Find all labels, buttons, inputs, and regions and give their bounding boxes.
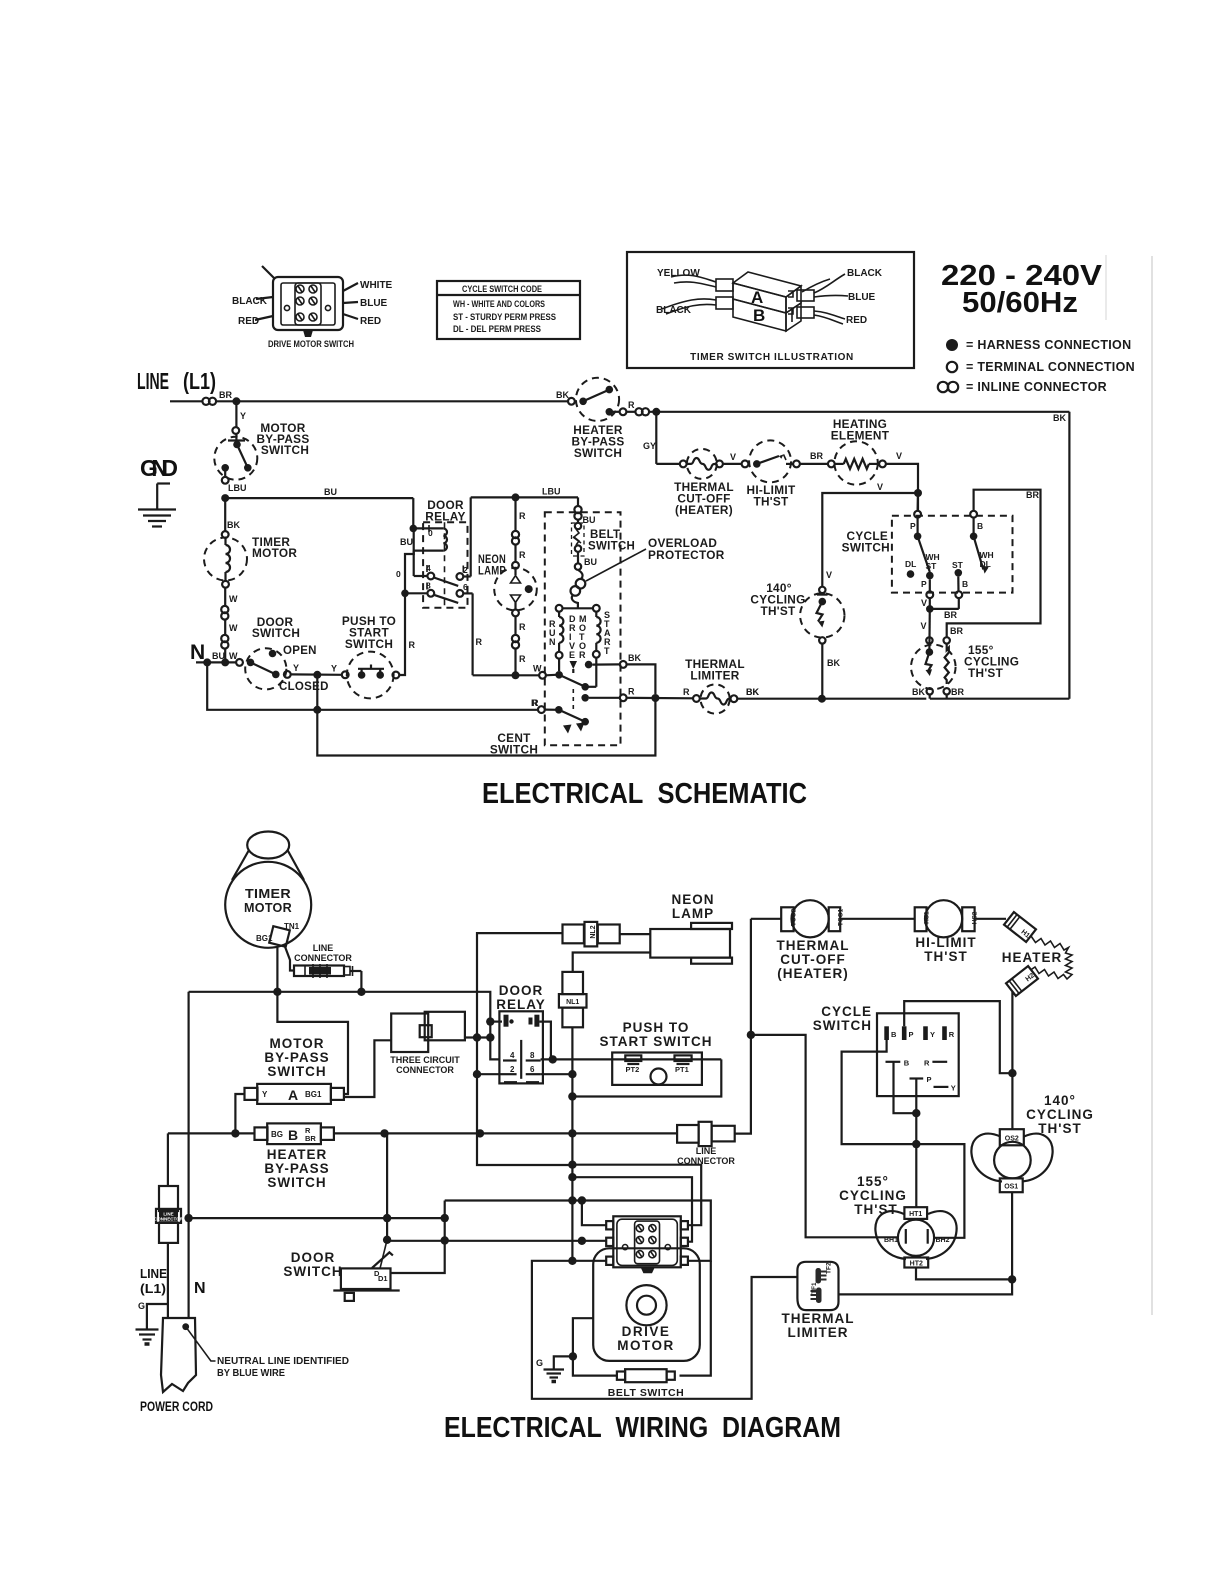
- svg-text:N: N: [190, 641, 205, 664]
- cycle switch box: [892, 516, 1013, 593]
- start winding: [593, 612, 601, 658]
- door relay (wiring): [499, 1011, 543, 1083]
- svg-text:BR: BR: [950, 626, 963, 636]
- wire NL1 trunk down: [571, 1027, 573, 1261]
- node B right 2: [476, 1129, 484, 1137]
- svg-text:BLACK: BLACK: [656, 305, 692, 316]
- svg-text:DRIVE: DRIVE: [622, 1324, 671, 1339]
- svg-text:BK: BK: [227, 520, 240, 530]
- ground symbol motor: [544, 1370, 565, 1382]
- svg-text:B: B: [962, 579, 968, 589]
- heating element: [828, 441, 886, 484]
- svg-text:SWITCH: SWITCH: [267, 1064, 326, 1079]
- node timer/N junction: [221, 658, 229, 666]
- node bus/3cc: [486, 1033, 494, 1041]
- svg-text:N: N: [549, 637, 556, 647]
- svg-text:R: R: [579, 650, 586, 660]
- svg-text:TN1: TN1: [284, 922, 300, 931]
- thermal cut-off (wiring): [751, 900, 915, 937]
- svg-text:BG1: BG1: [256, 934, 273, 943]
- heater by-pass switch: [568, 378, 626, 421]
- svg-text:Y: Y: [240, 411, 246, 421]
- wire GY down: [655, 412, 657, 464]
- overload protector: [571, 570, 586, 609]
- wire left top terminal: [582, 1201, 606, 1226]
- node: [578, 1237, 586, 1245]
- svg-text:LINE: LINE: [696, 1146, 717, 1156]
- wire timer drop: [224, 498, 226, 531]
- wire 140 branch: [822, 493, 918, 587]
- wire pin0 stub: [490, 1020, 502, 1022]
- svg-text:MOTOR: MOTOR: [270, 1036, 325, 1051]
- wire relay pin1: [539, 1022, 551, 1060]
- svg-text:THREE CIRCUIT: THREE CIRCUIT: [390, 1055, 460, 1065]
- node BU/coil junction: [410, 525, 418, 533]
- timer motor (wiring): [225, 832, 311, 948]
- svg-text:LAMP: LAMP: [672, 906, 714, 921]
- thermal cut-off (heater): [680, 449, 723, 479]
- terminal W motor: [539, 672, 546, 679]
- svg-text:V: V: [896, 451, 902, 461]
- wire LBU line: [471, 496, 578, 498]
- node trunk bottom: [568, 1257, 576, 1265]
- node trunk/y1200: [568, 1196, 576, 1204]
- svg-text:R: R: [532, 698, 539, 708]
- svg-text:BK: BK: [912, 687, 925, 697]
- svg-text:CLOSED: CLOSED: [279, 681, 329, 693]
- node: [912, 1109, 920, 1117]
- svg-text:P: P: [921, 579, 927, 589]
- svg-text:BU: BU: [584, 557, 597, 567]
- svg-text:TCO1: TCO1: [837, 908, 844, 926]
- svg-text:B: B: [891, 1030, 897, 1039]
- svg-text:D1: D1: [378, 1274, 388, 1283]
- svg-text:MOTOR: MOTOR: [244, 900, 292, 915]
- svg-text:LIMITER: LIMITER: [788, 1325, 849, 1340]
- svg-text:R: R: [519, 622, 526, 632]
- wire y1177: [572, 1177, 692, 1242]
- svg-text:WHITE: WHITE: [360, 280, 393, 291]
- wire cycle V down: [928, 609, 931, 649]
- node loop: [313, 706, 321, 714]
- svg-text:4: 4: [510, 1051, 515, 1060]
- heater by-pass switch B (wiring): [255, 1123, 334, 1144]
- terminal R: [620, 694, 627, 701]
- wire L1 to heater bypass: [216, 400, 569, 402]
- heater element (wiring): [1004, 912, 1072, 996]
- door relay contact 4-2: [414, 551, 471, 586]
- svg-text:155°: 155°: [857, 1174, 889, 1189]
- svg-text:6: 6: [530, 1065, 535, 1074]
- svg-text:LINE: LINE: [313, 943, 334, 953]
- wire down to motor by-pass: [235, 401, 237, 427]
- wire door switch line: [189, 1217, 445, 1219]
- 140 cycling th'st: [800, 587, 844, 699]
- svg-text:CONNECTOR: CONNECTOR: [294, 953, 352, 963]
- node junction x655: [651, 694, 659, 702]
- svg-text:CONNECTOR: CONNECTOR: [154, 1217, 184, 1222]
- wire g branch: [554, 1356, 573, 1369]
- svg-text:A: A: [751, 288, 763, 307]
- inline connector: [574, 506, 581, 513]
- wire door drop: [386, 1133, 388, 1239]
- svg-text:NL1: NL1: [566, 999, 579, 1006]
- drive motor switch connector: [606, 1216, 688, 1273]
- timer motor: [204, 531, 247, 588]
- svg-text:Y: Y: [293, 663, 299, 673]
- wire top bus: [189, 992, 500, 1060]
- svg-text:BH2: BH2: [936, 1237, 950, 1244]
- svg-text:HEATER: HEATER: [1002, 950, 1063, 965]
- svg-text:BK: BK: [628, 653, 641, 663]
- cycle switch (wiring): [877, 1013, 959, 1096]
- svg-text:BLACK: BLACK: [232, 296, 268, 307]
- wire connector down to bus: [360, 971, 362, 992]
- svg-text:PROTECTOR: PROTECTOR: [648, 548, 725, 562]
- svg-text:50/60Hz: 50/60Hz: [962, 287, 1078, 319]
- svg-text:BG1: BG1: [305, 1090, 322, 1099]
- svg-text:TH'ST: TH'ST: [760, 604, 796, 618]
- svg-text:N: N: [194, 1280, 206, 1297]
- node: [912, 1140, 920, 1148]
- svg-text:B: B: [753, 306, 765, 325]
- run winding: [556, 612, 564, 671]
- wire left edge down: [188, 992, 190, 1318]
- svg-text:R: R: [519, 550, 526, 560]
- door relay contact 8-6: [405, 581, 473, 603]
- svg-text:NL2: NL2: [590, 925, 597, 938]
- svg-text:LINE: LINE: [137, 368, 169, 394]
- svg-text:T: T: [604, 646, 610, 656]
- wire heater row: [656, 463, 680, 465]
- svg-text:BK: BK: [746, 687, 759, 697]
- wires: [671, 275, 716, 282]
- neon lamp branch: [494, 497, 537, 675]
- svg-text:Y: Y: [331, 664, 337, 674]
- wire BU corner down: [412, 498, 414, 528]
- svg-text:BR: BR: [951, 687, 964, 697]
- svg-text:WH - WHITE AND COLORS: WH - WHITE AND COLORS: [453, 299, 545, 310]
- svg-text:BK: BK: [827, 658, 840, 668]
- node: [549, 1055, 557, 1063]
- wire N line: [196, 661, 236, 663]
- wire branch to 140: [751, 1035, 898, 1237]
- svg-text:A: A: [288, 1087, 298, 1103]
- wire A right to 3cc: [344, 1040, 391, 1097]
- svg-text:= TERMINAL CONNECTION: = TERMINAL CONNECTION: [966, 360, 1135, 374]
- svg-text:R: R: [924, 1059, 930, 1068]
- wire left mid terminal from door: [387, 1240, 606, 1241]
- svg-text:SWITCH: SWITCH: [283, 1264, 342, 1279]
- svg-text:OS2: OS2: [1005, 1136, 1019, 1143]
- svg-text:YELLOW: YELLOW: [657, 268, 700, 279]
- svg-text:CONNECTOR: CONNECTOR: [396, 1065, 454, 1075]
- node motor R dot: [581, 694, 589, 702]
- wire timer to line connector: [284, 944, 294, 971]
- wire cycle P top: [904, 1001, 1012, 1073]
- node: [357, 988, 365, 996]
- svg-text:RELAY: RELAY: [425, 510, 465, 524]
- svg-text:140°: 140°: [1044, 1093, 1076, 1108]
- wire pts loop: [572, 1059, 721, 1096]
- wire heat to cycle P: [916, 493, 919, 511]
- wire right bottom to belt: [680, 1261, 711, 1376]
- svg-text:(HEATER): (HEATER): [777, 966, 849, 981]
- svg-text:6: 6: [463, 582, 468, 592]
- three circuit connector: [391, 1012, 465, 1052]
- svg-text:RELAY: RELAY: [496, 997, 546, 1012]
- svg-text:B: B: [977, 521, 983, 531]
- door switch (wiring): [333, 1240, 399, 1301]
- wire to corner: [886, 464, 918, 511]
- svg-text:RED: RED: [846, 315, 867, 326]
- leader overload: [586, 549, 646, 581]
- wire bottom main BK: [737, 698, 926, 700]
- thermal limiter schematic: [693, 684, 737, 713]
- svg-text:SWITCH: SWITCH: [252, 626, 300, 640]
- svg-text:TIMER: TIMER: [245, 886, 291, 901]
- wire B line: [168, 1132, 255, 1134]
- wire right edge down: [1068, 412, 1070, 699]
- wire lc2 right up: [735, 919, 751, 1134]
- svg-text:ST: ST: [952, 560, 964, 570]
- svg-text:BLUE: BLUE: [848, 292, 876, 303]
- node: [473, 1070, 481, 1078]
- wire bar2 left to trunk: [477, 933, 563, 1074]
- node os1/ht2: [1008, 1275, 1016, 1283]
- svg-text:NEON: NEON: [671, 892, 714, 907]
- node door line junction: [184, 1214, 192, 1222]
- wire H2 down: [1011, 992, 1013, 1073]
- 155 cycling th'st: [911, 637, 956, 699]
- svg-text:TH'ST: TH'ST: [968, 666, 1004, 680]
- wire trunk nodes: [568, 1161, 576, 1169]
- wire LBU corner into motor: [577, 497, 579, 506]
- cent switch lower: [531, 689, 589, 734]
- wire PTS up to relay: [399, 528, 413, 675]
- wire: [800, 463, 828, 465]
- svg-text:R: R: [949, 1030, 955, 1039]
- svg-text:8: 8: [530, 1051, 535, 1060]
- ground symbol power: [136, 1330, 159, 1345]
- door relay coil: [413, 525, 447, 551]
- N bottom loop: [207, 662, 538, 709]
- svg-text:ST - STURDY PERM PRESS: ST - STURDY PERM PRESS: [453, 312, 556, 323]
- wire y1200 run: [445, 1201, 711, 1261]
- door relay mid dashed line: [444, 522, 446, 608]
- svg-text:Y: Y: [930, 1030, 935, 1039]
- svg-text:BR: BR: [305, 1134, 316, 1143]
- svg-text:BK: BK: [1053, 413, 1066, 423]
- wire + inline connector: [626, 411, 635, 413]
- wire timer to bus: [276, 946, 278, 992]
- node 140 junction: [818, 695, 826, 703]
- svg-text:V: V: [730, 452, 736, 462]
- cycle switch code table: [437, 281, 580, 339]
- node coil junction: [401, 590, 409, 598]
- svg-text:SWITCH: SWITCH: [261, 443, 309, 457]
- node pts/nl1: [568, 1092, 576, 1100]
- svg-text:PT1: PT1: [675, 1065, 689, 1074]
- svg-text:CYCLE SWITCH CODE: CYCLE SWITCH CODE: [462, 284, 542, 295]
- svg-text:W: W: [229, 623, 238, 633]
- svg-text:DL - DEL PERM PRESS: DL - DEL PERM PRESS: [453, 324, 541, 335]
- legend harness connection: [946, 338, 1131, 352]
- svg-text:BELT SWITCH: BELT SWITCH: [608, 1387, 684, 1399]
- svg-text:TF1: TF1: [811, 1282, 818, 1294]
- node junction L1/motor-bypass: [232, 397, 240, 405]
- svg-text:PT2: PT2: [626, 1065, 640, 1074]
- wire BK from motor: [592, 663, 619, 665]
- svg-text:PUSH TO: PUSH TO: [623, 1020, 690, 1035]
- svg-text:TH'ST: TH'ST: [1038, 1121, 1081, 1136]
- svg-text:SWITCH: SWITCH: [813, 1018, 872, 1033]
- svg-text:LBU: LBU: [542, 487, 561, 497]
- svg-text:(L1): (L1): [140, 1281, 166, 1296]
- svg-text:RED: RED: [360, 316, 381, 327]
- svg-text:START SWITCH: START SWITCH: [600, 1034, 713, 1049]
- wire relay row lower: [541, 1073, 573, 1075]
- svg-text:THERMAL: THERMAL: [782, 1311, 855, 1326]
- node: [231, 1129, 239, 1137]
- wire G branch: [147, 1304, 168, 1329]
- push to start switch (wiring): [612, 1053, 702, 1085]
- svg-text:SWITCH: SWITCH: [345, 637, 393, 651]
- svg-text:TH'ST: TH'ST: [854, 1202, 897, 1217]
- line connector 2: [677, 1122, 735, 1146]
- svg-text:DOOR: DOOR: [291, 1250, 336, 1265]
- node B right 1: [380, 1129, 388, 1137]
- motor by-pass switch A (wiring): [245, 1084, 344, 1104]
- svg-text:LIMITER: LIMITER: [690, 669, 739, 683]
- push to start switch: [342, 652, 399, 699]
- svg-text:OPEN: OPEN: [283, 645, 317, 657]
- svg-text:R: R: [519, 511, 526, 521]
- node N loop junction: [203, 658, 211, 666]
- node: [578, 1196, 586, 1204]
- svg-text:Y: Y: [262, 1090, 268, 1099]
- svg-text:TIMER SWITCH ILLUSTRATION: TIMER SWITCH ILLUSTRATION: [690, 352, 854, 363]
- wire cycle B in: [842, 1040, 965, 1238]
- hi-limit th'st (wiring): [915, 900, 1006, 937]
- NL2 component: [563, 922, 620, 947]
- svg-text:E: E: [569, 650, 575, 660]
- node BU junction: [221, 494, 229, 502]
- motor by-pass switch: [214, 427, 257, 484]
- wire L1 main line: [170, 400, 203, 402]
- svg-text:DL: DL: [980, 559, 991, 569]
- svg-text:ELECTRICAL SCHEMATIC: ELECTRICAL SCHEMATIC: [482, 778, 807, 810]
- legend inline connector: [938, 380, 1107, 394]
- svg-text:LINE: LINE: [140, 1266, 167, 1281]
- node bus/pin0: [486, 1017, 494, 1025]
- svg-text:SWITCH: SWITCH: [588, 541, 635, 553]
- svg-text:G: G: [536, 1358, 543, 1368]
- motor dashed box: [545, 512, 621, 745]
- svg-text:THERMAL: THERMAL: [777, 938, 850, 953]
- wire contact6 down: [472, 593, 474, 675]
- connector lugs right: [797, 290, 814, 301]
- inline connector W2: [221, 635, 228, 642]
- svg-text:V: V: [921, 598, 927, 608]
- hi-limit th'st: [742, 440, 800, 482]
- svg-text:2: 2: [510, 1065, 515, 1074]
- node g: [569, 1352, 577, 1360]
- svg-text:HI-LIMIT: HI-LIMIT: [915, 935, 976, 950]
- wire A right up to bus: [277, 992, 348, 1094]
- wire to thermal limiter: [627, 697, 693, 700]
- wire A left to B line: [235, 1094, 244, 1133]
- svg-text:BK: BK: [556, 390, 569, 400]
- 155 cycling th'st (wiring): [875, 1207, 956, 1267]
- svg-text:RED: RED: [238, 316, 259, 327]
- wire contact2 up to LBU line: [470, 497, 472, 576]
- svg-text:MOTOR: MOTOR: [617, 1338, 675, 1353]
- svg-text:R: R: [628, 687, 635, 697]
- svg-text:BR: BR: [219, 390, 232, 400]
- svg-text:DRIVE MOTOR SWITCH: DRIVE MOTOR SWITCH: [268, 339, 354, 350]
- svg-text:GND: GND: [140, 455, 178, 481]
- slab B: [733, 299, 786, 331]
- wire TL right: [839, 1279, 1013, 1294]
- slab A: [733, 272, 801, 297]
- wire belt left to ground node: [573, 1318, 617, 1375]
- svg-text:BR: BR: [810, 451, 823, 461]
- node d1/door-line: [441, 1236, 449, 1244]
- svg-text:(L1): (L1): [183, 368, 216, 394]
- timer switch illustration: [627, 252, 914, 368]
- svg-text:CYCLE: CYCLE: [821, 1004, 872, 1019]
- svg-text:ST: ST: [926, 561, 938, 571]
- wire below connector: [167, 1243, 169, 1318]
- svg-text:LAMP: LAMP: [478, 564, 506, 578]
- svg-text:SWITCH: SWITCH: [267, 1175, 326, 1190]
- svg-text:ELECTRICAL WIRING DIAGRAM: ELECTRICAL WIRING DIAGRAM: [444, 1412, 841, 1444]
- wire to N line: [224, 649, 226, 663]
- wire HT2 to node: [916, 1268, 1012, 1280]
- node d1/neutral-line: [441, 1214, 449, 1222]
- wire cycle B top BR loop: [947, 490, 1041, 637]
- wire OS1 down: [1011, 1192, 1013, 1279]
- NL1 component: [559, 972, 587, 1027]
- inline connector on L1: [202, 398, 209, 405]
- svg-text:R: R: [519, 654, 526, 664]
- cycle switch right pole: [970, 511, 994, 574]
- line connector 1: [294, 964, 361, 978]
- door switch: [236, 648, 291, 689]
- svg-text:TH'ST: TH'ST: [753, 495, 789, 509]
- svg-text:BU: BU: [324, 487, 337, 497]
- node neon junction: [512, 493, 520, 501]
- svg-text:P: P: [909, 1030, 914, 1039]
- svg-text:BR: BR: [944, 610, 957, 620]
- svg-text:BY-PASS: BY-PASS: [264, 1050, 329, 1065]
- wire door sw to PTS: [291, 673, 342, 676]
- node heater junction: [652, 408, 660, 416]
- svg-text:TF2: TF2: [826, 1262, 833, 1274]
- svg-text:(HEATER): (HEATER): [675, 503, 733, 517]
- svg-text:V: V: [826, 570, 832, 580]
- belt switch (wiring): [617, 1369, 675, 1382]
- svg-text:Y: Y: [951, 1084, 956, 1093]
- node tco branch: [747, 1031, 755, 1039]
- svg-text:SWITCH: SWITCH: [574, 446, 622, 460]
- svg-text:R: R: [476, 637, 483, 647]
- svg-text:CYCLING: CYCLING: [839, 1188, 907, 1203]
- svg-text:BLACK: BLACK: [847, 268, 883, 279]
- ground symbol: [138, 484, 176, 527]
- node B nl1 trunk: [568, 1129, 576, 1137]
